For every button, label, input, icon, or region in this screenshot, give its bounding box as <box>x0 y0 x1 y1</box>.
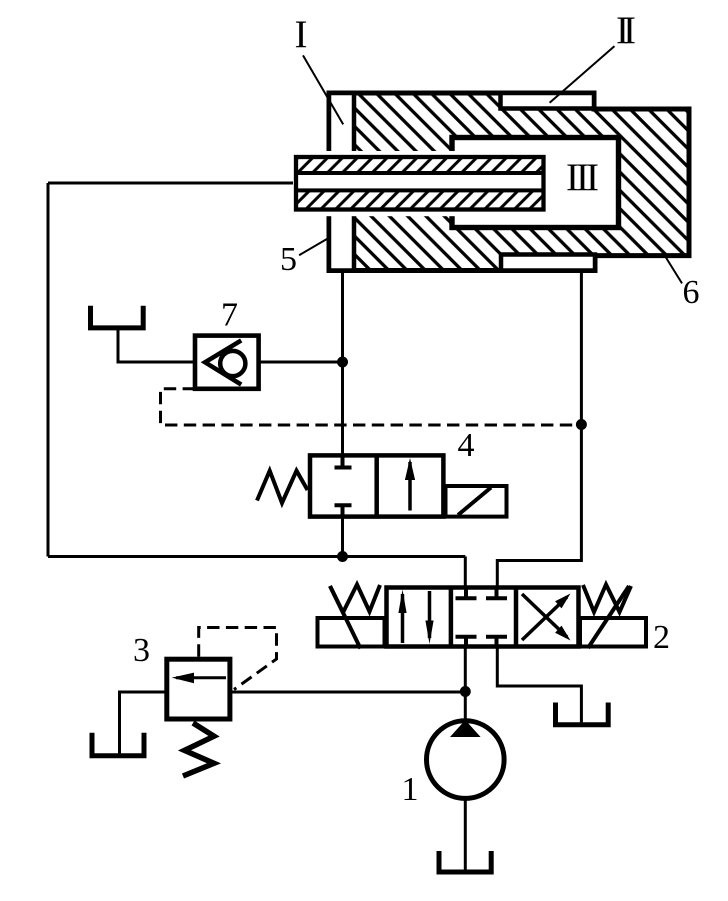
wire from rod to left line <box>48 182 293 185</box>
label 2 <box>653 619 670 656</box>
valve 4 blocked ports <box>335 455 352 516</box>
valve 2 middle cell blocked ports <box>456 588 508 647</box>
junction dot at pump <box>460 686 471 697</box>
label 3 <box>133 632 150 669</box>
junction dot on right wire <box>576 419 587 430</box>
cylinder left port wire <box>341 272 344 456</box>
pump suction wire <box>464 798 467 870</box>
label 7 <box>221 297 238 334</box>
valve 2 left cell arrows <box>398 590 433 645</box>
svg-text:7: 7 <box>221 297 238 334</box>
svg-text:2: 2 <box>653 619 670 656</box>
relief valve 3 box <box>167 659 230 719</box>
tank at valve 2 <box>556 703 609 725</box>
valve 4 solenoid <box>446 486 507 517</box>
wire tank to check valve <box>118 330 195 362</box>
label III <box>566 156 598 199</box>
valve 4 spring <box>257 471 308 503</box>
pilot dashed line from check valve <box>161 389 582 425</box>
svg-text:5: 5 <box>280 241 297 278</box>
left vertical wire <box>47 183 50 557</box>
leader line II <box>550 46 615 103</box>
junction dot at check valve line <box>337 357 348 368</box>
wire valve4 to junction <box>341 517 344 557</box>
valve 2 port T wire to tank <box>497 647 581 723</box>
label I <box>295 13 308 56</box>
svg-text:3: 3 <box>133 632 150 669</box>
leader line 5 <box>299 239 327 256</box>
pump 1 <box>427 720 505 798</box>
svg-text:6: 6 <box>683 274 700 311</box>
svg-text:1: 1 <box>402 771 419 808</box>
svg-text:4: 4 <box>458 427 475 464</box>
tank of check valve 7 <box>91 306 144 328</box>
tank at relief valve <box>92 733 144 756</box>
bottom horizontal wire <box>48 555 465 558</box>
leader line I <box>303 55 343 124</box>
label II <box>616 9 635 52</box>
relief valve 3 spring <box>183 723 214 776</box>
piston rod (hollow) <box>296 157 544 210</box>
svg-text:I: I <box>295 13 308 56</box>
valve 4 body <box>310 455 443 516</box>
wire junction to pump <box>464 692 467 722</box>
wire check valve to main line <box>259 361 343 364</box>
tank at pump <box>439 851 491 872</box>
valve 2 right solenoid <box>580 586 646 648</box>
plate 5 (left end plate) <box>329 93 354 271</box>
tab II (upper white tab) <box>501 93 595 109</box>
valve 2 left spring <box>330 585 380 613</box>
svg-text:III: III <box>566 156 598 199</box>
valve 2 left solenoid <box>318 586 385 649</box>
wire down to valve 2 port A <box>464 557 467 589</box>
lower white tab <box>501 255 595 271</box>
relief valve 3 pilot dashed <box>199 628 277 690</box>
chamber III (white cavity) <box>452 138 619 228</box>
cylinder hatched body (blocks I and 6) <box>329 93 689 271</box>
leader line 6 <box>664 254 682 283</box>
rod bore gap <box>293 151 456 216</box>
valve 2 port P wire <box>464 647 467 692</box>
valve 4 flow arrow <box>405 458 415 511</box>
label 6 <box>683 274 700 311</box>
relief valve drain wire <box>120 692 167 754</box>
valve 2 body <box>387 588 579 647</box>
valve 2 right cell crossed arrows <box>522 594 571 641</box>
label 5 <box>280 241 297 278</box>
check valve 7 <box>195 336 259 389</box>
valve 2 right spring <box>583 585 631 613</box>
cylinder right port wire <box>497 271 581 589</box>
label 4 <box>458 427 475 464</box>
relief valve to pump wire <box>230 691 465 694</box>
label 1 <box>402 771 419 808</box>
junction dot at bottom horizontal wire <box>337 551 348 562</box>
